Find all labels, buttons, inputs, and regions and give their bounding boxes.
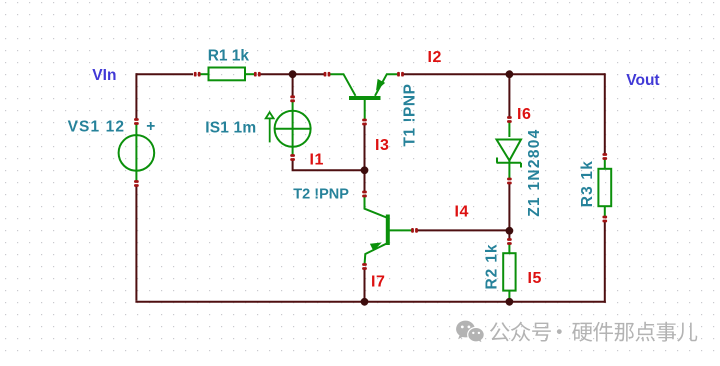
wire T1 right to top-right corner, through Z1 top junction	[403, 73, 605, 75]
pin mark R1 right	[254, 72, 261, 77]
svg-text:Z1 1N2804: Z1 1N2804	[526, 128, 543, 216]
wire Z1 top stub	[508, 74, 510, 117]
wire Z1 bottom to node I4 junction	[508, 183, 510, 231]
current source IS1 direction arrow	[266, 112, 274, 142]
junction node at IS1 top	[289, 70, 297, 78]
pin mark T1 collector bottom	[362, 119, 367, 126]
svg-text:+: +	[146, 118, 155, 135]
svg-text:VIn: VIn	[92, 67, 116, 84]
pin mark Z1 bottom	[507, 178, 512, 185]
pin mark T1 left	[324, 72, 331, 77]
wire VIn vertical down to VS1 top	[135, 73, 137, 119]
wire IS1 bottom to junction (node I1)	[293, 160, 365, 170]
resistor R3	[598, 159, 611, 216]
svg-text:I7: I7	[371, 274, 386, 291]
svg-text:I6: I6	[517, 106, 532, 123]
pin mark R1 left	[194, 72, 201, 77]
svg-text:R3 1k: R3 1k	[579, 160, 596, 207]
pin mark T2 top	[362, 191, 367, 198]
pin mark T2 emitter bottom	[362, 263, 367, 270]
watermark text 公众号 硬件那点事儿	[490, 322, 697, 342]
pin mark IS1 top	[290, 95, 295, 102]
watermark wechat icon eyes	[461, 326, 480, 335]
svg-text:Vout: Vout	[626, 72, 659, 89]
wire T2 emitter down to bottom bus	[364, 269, 366, 302]
svg-text:T2 !PNP: T2 !PNP	[293, 187, 349, 203]
svg-text:I4: I4	[455, 204, 470, 221]
pin mark T2 base right	[411, 228, 418, 233]
junction node I4 (Z1 / T2 base / R2)	[506, 227, 514, 235]
pin mark R3 top	[602, 153, 607, 160]
svg-text:I5: I5	[528, 270, 543, 287]
pin mark VS1 top	[134, 118, 139, 125]
junction node at Z1 top	[506, 70, 514, 78]
svg-text:R2 1k: R2 1k	[483, 244, 500, 290]
svg-text:I2: I2	[428, 49, 443, 66]
pin mark IS1 bottom	[290, 154, 295, 161]
transistor T2 (PNP)	[365, 195, 412, 266]
junction node I1 (T1 collector / IS1 / T2)	[361, 166, 369, 174]
wire T2 base to R2 top junction (node I4)	[418, 229, 510, 231]
wire VIn corner to R1 left	[136, 73, 193, 75]
svg-text:IS1 1m: IS1 1m	[205, 120, 256, 137]
wire R3 bottom to bottom bus	[604, 222, 606, 303]
wire R1 right to T1 left, through IS1 top junction	[259, 73, 325, 75]
watermark wechat icon big bubble	[456, 321, 475, 340]
wire bottom bus	[135, 301, 605, 303]
resistor R2	[503, 244, 515, 301]
wire right rail down to R3	[604, 73, 606, 154]
wire VS1 bottom down to bottom bus	[135, 186, 137, 301]
watermark separator dot	[557, 329, 562, 334]
transistor T1 emitter arrow	[377, 80, 384, 90]
junction node T2 emitter at bus	[361, 298, 369, 306]
wire T1 collector down to node I1 junction	[364, 125, 366, 171]
wire node I4 down to R2	[508, 231, 510, 239]
svg-text:VS1 12: VS1 12	[68, 118, 125, 135]
svg-text:R1 1k: R1 1k	[208, 47, 250, 64]
pin mark VS1 bottom	[134, 180, 139, 187]
voltage source VS1	[119, 124, 155, 182]
zener diode Z1	[497, 122, 522, 180]
junction node R2 bottom at bus	[506, 298, 514, 306]
current source IS1	[275, 102, 311, 156]
pin mark R3 bottom	[602, 216, 607, 223]
svg-text:I3: I3	[375, 137, 390, 154]
svg-text:T1 !PNP: T1 !PNP	[402, 84, 419, 147]
pin mark R2 top	[507, 238, 512, 245]
watermark wechat icon small bubble	[468, 327, 485, 343]
pin mark Z1 top	[507, 116, 512, 123]
wire junction down to T2 top	[364, 170, 366, 191]
wire IS1 top stub	[292, 74, 294, 96]
svg-text:I1: I1	[310, 152, 325, 169]
transistor T1 (PNP)	[329, 74, 398, 121]
resistor R1	[198, 68, 254, 81]
pin mark T1 right	[397, 72, 404, 77]
transistor T2 emitter arrow	[371, 243, 380, 250]
